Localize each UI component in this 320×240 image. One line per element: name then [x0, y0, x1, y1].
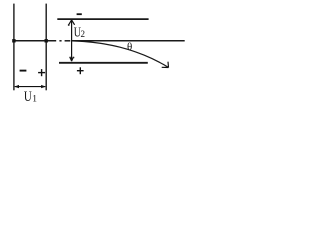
minus sign (top plate) — [77, 13, 82, 15]
trajectory arrowhead — [162, 62, 169, 68]
junction dot right — [45, 39, 48, 42]
bottom deflection plate — [59, 62, 148, 64]
wire: dash-dot axis segment — [59, 40, 61, 42]
trajectory curve — [72, 41, 168, 67]
dimension arrow U1 — [15, 86, 45, 88]
U2 double arrow between plates — [71, 20, 73, 61]
svg-text:θ: θ — [127, 41, 132, 53]
wire: horizontal axis line to the right — [72, 40, 185, 42]
left plate (vertical wire) — [13, 4, 15, 91]
svg-text:U: U — [24, 87, 32, 104]
svg-text:2: 2 — [81, 29, 86, 39]
right plate (vertical wire) — [45, 4, 47, 91]
plus sign (bottom plate) — [77, 70, 84, 72]
wire: horizontal connection between plates — [14, 40, 56, 42]
svg-text:1: 1 — [32, 95, 37, 105]
minus sign (left capacitor) — [20, 70, 27, 72]
top deflection plate — [57, 18, 148, 20]
junction dot left — [12, 39, 15, 42]
plus sign (left capacitor) — [38, 72, 45, 74]
